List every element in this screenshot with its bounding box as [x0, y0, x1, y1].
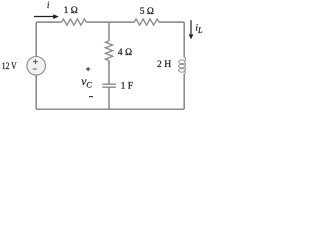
svg-text:vC: vC	[81, 76, 92, 90]
wire middle branch upper	[108, 22, 110, 41]
wire top-middle segment	[86, 21, 134, 23]
wire middle branch mid	[108, 61, 110, 85]
svg-text:12 V: 12 V	[2, 62, 17, 72]
resistor 5 Ohm	[134, 19, 159, 25]
wire left upper	[35, 22, 37, 57]
svg-text:4 Ω: 4 Ω	[118, 47, 132, 58]
wire right lower	[183, 73, 185, 109]
current arrow i	[34, 14, 59, 19]
svg-text:5 Ω: 5 Ω	[140, 7, 154, 17]
label − (capacitor polarity)	[89, 96, 93, 98]
wire top-right segment	[159, 21, 184, 23]
svg-text:i: i	[47, 1, 50, 11]
svg-text:2 H: 2 H	[157, 59, 171, 70]
resistor 1 Ohm	[62, 19, 87, 25]
wire middle branch lower	[108, 87, 110, 109]
inductor 2 H	[179, 57, 186, 74]
capacitor 1 F	[102, 84, 116, 87]
svg-text:1 Ω: 1 Ω	[64, 6, 78, 16]
label + (capacitor polarity)	[86, 67, 90, 71]
resistor 4 Ohm	[105, 41, 112, 61]
svg-text:iL: iL	[195, 24, 203, 35]
wire top-left segment	[36, 21, 61, 23]
voltage source 12 V	[27, 57, 46, 76]
wire right upper	[183, 22, 185, 58]
svg-text:1 F: 1 F	[121, 81, 134, 92]
wire left lower	[35, 75, 37, 109]
wire bottom	[36, 108, 184, 110]
current arrow iL	[189, 20, 194, 39]
